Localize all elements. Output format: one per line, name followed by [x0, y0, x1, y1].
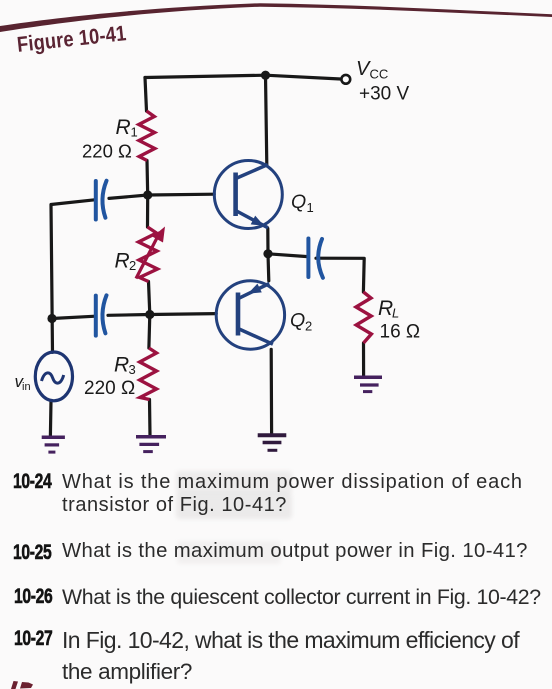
- svg-text:3: 3: [129, 362, 136, 377]
- svg-text:L: L: [392, 306, 399, 321]
- svg-text:16 Ω: 16 Ω: [380, 322, 421, 343]
- svg-text:Q: Q: [291, 191, 306, 213]
- svg-text:R: R: [378, 297, 393, 320]
- svg-text:2: 2: [305, 319, 312, 334]
- svg-text:R: R: [115, 250, 130, 273]
- svg-text:220 Ω: 220 Ω: [82, 140, 132, 161]
- svg-text:R: R: [114, 354, 129, 377]
- svg-text:220 Ω: 220 Ω: [84, 378, 135, 399]
- svg-text:2: 2: [129, 258, 136, 273]
- svg-text:Q: Q: [290, 310, 305, 332]
- svg-text:1: 1: [307, 200, 314, 215]
- svg-text:1: 1: [131, 124, 138, 139]
- svg-text:R: R: [116, 116, 131, 139]
- svg-text:+30 V: +30 V: [359, 84, 410, 105]
- svg-text:CC: CC: [370, 67, 389, 82]
- svg-text:in: in: [22, 381, 31, 393]
